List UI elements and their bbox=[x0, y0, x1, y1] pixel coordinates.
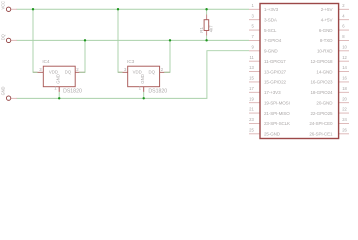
svg-text:3: 3 bbox=[251, 13, 254, 18]
svg-text:9: 9 bbox=[251, 44, 254, 49]
wire DQ rail bbox=[17, 39, 250, 41]
svg-text:22: 22 bbox=[342, 107, 347, 112]
svg-text:26: 26 bbox=[342, 127, 347, 132]
svg-text:20: 20 bbox=[342, 96, 347, 101]
junction VCC/IC3 bbox=[117, 8, 119, 10]
svg-text:4-+5V: 4-+5V bbox=[321, 17, 334, 22]
wire IC4 GND pin to GND rail bbox=[58, 92, 60, 98]
svg-text:7: 7 bbox=[251, 34, 254, 39]
wire DQ to IC4 DQ pin bbox=[79, 40, 85, 72]
svg-text:GND: GND bbox=[140, 74, 145, 84]
svg-text:DQ: DQ bbox=[149, 69, 156, 74]
svg-text:21: 21 bbox=[249, 107, 254, 112]
junction DQ/R1 bbox=[205, 39, 207, 41]
svg-text:19-SPI-MOSI: 19-SPI-MOSI bbox=[264, 100, 290, 105]
svg-text:10: 10 bbox=[342, 44, 347, 49]
svg-text:17-+3V3: 17-+3V3 bbox=[264, 90, 281, 95]
svg-text:2: 2 bbox=[161, 67, 164, 72]
svg-text:DS1820: DS1820 bbox=[148, 88, 167, 94]
svg-text:21-SPI-MISO: 21-SPI-MISO bbox=[264, 111, 290, 116]
junction DQ/IC3 bbox=[169, 39, 171, 41]
svg-text:1-+3V3: 1-+3V3 bbox=[264, 7, 279, 12]
svg-text:6-GND: 6-GND bbox=[319, 28, 333, 33]
pin GND connector circle bbox=[6, 96, 10, 100]
svg-text:14: 14 bbox=[342, 65, 347, 70]
svg-text:2: 2 bbox=[342, 3, 345, 8]
pin VCC stub bbox=[11, 8, 17, 10]
IC4 DS1820 temperature sensor bbox=[33, 59, 85, 94]
svg-text:10-RXD: 10-RXD bbox=[317, 49, 333, 54]
pin names left column bbox=[264, 7, 290, 137]
wire DQ to IC3 DQ pin bbox=[164, 40, 170, 72]
wire R1 top lead to VCC bbox=[206, 9, 208, 14]
svg-text:11-GPIO17: 11-GPIO17 bbox=[264, 59, 286, 64]
svg-text:DQ: DQ bbox=[65, 69, 72, 74]
svg-text:3: 3 bbox=[39, 67, 42, 72]
svg-text:5-SCL: 5-SCL bbox=[264, 28, 277, 33]
svg-text:24: 24 bbox=[342, 117, 347, 122]
resistor R1 bbox=[199, 15, 214, 36]
pin DQ stub bbox=[11, 39, 17, 41]
svg-text:13: 13 bbox=[249, 65, 254, 70]
svg-text:26-SPI-CE1: 26-SPI-CE1 bbox=[309, 132, 333, 137]
svg-text:6: 6 bbox=[342, 24, 345, 29]
svg-text:22-GPIO25: 22-GPIO25 bbox=[310, 111, 333, 116]
svg-text:5: 5 bbox=[251, 24, 254, 29]
pin numbers right bbox=[342, 3, 347, 133]
connector body bbox=[260, 4, 339, 139]
svg-text:17: 17 bbox=[249, 86, 254, 91]
svg-text:2-+5V: 2-+5V bbox=[321, 7, 334, 12]
svg-text:3: 3 bbox=[124, 67, 127, 72]
svg-text:4k7: 4k7 bbox=[209, 25, 214, 32]
junction DQ/IC4 bbox=[84, 39, 86, 41]
connector pin stubs right bbox=[339, 9, 349, 134]
svg-text:18-GPIO24: 18-GPIO24 bbox=[310, 90, 333, 95]
svg-text:8-TXD: 8-TXD bbox=[320, 38, 333, 43]
svg-text:VDD: VDD bbox=[133, 69, 142, 74]
junction VCC/R1 bbox=[205, 8, 207, 10]
pin DQ connector circle bbox=[6, 38, 10, 42]
svg-text:25-GND: 25-GND bbox=[264, 132, 281, 137]
pin VCC connector circle bbox=[6, 7, 10, 11]
wire VCC rail bbox=[17, 8, 250, 10]
svg-text:4: 4 bbox=[342, 13, 345, 18]
pin names right column bbox=[309, 7, 333, 137]
svg-text:12: 12 bbox=[342, 55, 347, 60]
svg-text:16-GPIO23: 16-GPIO23 bbox=[310, 80, 333, 85]
svg-text:12-GPIO18: 12-GPIO18 bbox=[310, 59, 333, 64]
wire IC3 GND pin to GND rail bbox=[143, 92, 145, 98]
svg-text:8: 8 bbox=[342, 34, 345, 39]
IC3 DS1820 temperature sensor bbox=[118, 59, 170, 94]
svg-text:23: 23 bbox=[249, 117, 254, 122]
svg-text:R1: R1 bbox=[199, 26, 204, 32]
svg-text:19: 19 bbox=[249, 96, 254, 101]
wire GND rail bbox=[17, 51, 250, 99]
svg-text:DS1820: DS1820 bbox=[63, 88, 82, 94]
junction GND/IC4 bbox=[58, 97, 60, 99]
svg-text:3-SDA: 3-SDA bbox=[264, 17, 278, 22]
wire VCC to IC4 VDD bbox=[33, 9, 38, 72]
svg-text:IC3: IC3 bbox=[127, 59, 135, 64]
svg-text:15-GPIO22: 15-GPIO22 bbox=[264, 80, 287, 85]
svg-text:7-GPIO4: 7-GPIO4 bbox=[264, 38, 282, 43]
connector SV1 (Raspberry Pi GPIO header) bbox=[249, 3, 349, 139]
svg-text:GND: GND bbox=[56, 74, 61, 84]
svg-text:14-GND: 14-GND bbox=[316, 69, 333, 74]
svg-text:IC4: IC4 bbox=[42, 59, 50, 64]
svg-text:20-GND: 20-GND bbox=[316, 100, 333, 105]
svg-text:VDD: VDD bbox=[49, 69, 58, 74]
junction VCC/IC4 bbox=[32, 8, 34, 10]
svg-text:1: 1 bbox=[251, 3, 254, 8]
svg-text:13-GPIO27: 13-GPIO27 bbox=[264, 69, 287, 74]
svg-text:DQ: DQ bbox=[1, 34, 6, 40]
pin numbers left bbox=[249, 3, 254, 133]
svg-text:15: 15 bbox=[249, 76, 254, 81]
svg-text:GND: GND bbox=[1, 86, 6, 95]
svg-text:24-SPI-CE0: 24-SPI-CE0 bbox=[309, 121, 333, 126]
svg-text:25: 25 bbox=[249, 127, 254, 132]
wire VCC to IC3 VDD bbox=[118, 9, 123, 72]
wire R1 bottom lead to DQ bbox=[206, 36, 208, 41]
svg-text:2: 2 bbox=[76, 67, 79, 72]
svg-text:9-GND: 9-GND bbox=[264, 49, 278, 54]
svg-text:23-SPI-SCLK: 23-SPI-SCLK bbox=[264, 121, 290, 126]
pin GND stub bbox=[11, 97, 17, 99]
svg-text:18: 18 bbox=[342, 86, 347, 91]
connector pin stubs left bbox=[249, 9, 260, 134]
junction GND/IC3 bbox=[143, 97, 145, 99]
svg-text:16: 16 bbox=[342, 76, 347, 81]
svg-text:11: 11 bbox=[249, 55, 254, 60]
svg-text:VCC: VCC bbox=[1, 1, 6, 9]
